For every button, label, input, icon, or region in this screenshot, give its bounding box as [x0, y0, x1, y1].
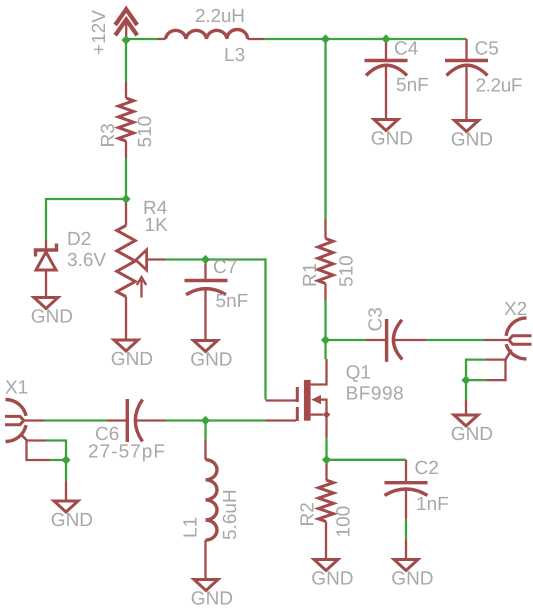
wire +12V rail right segment	[264, 38, 467, 40]
wire node to gate1	[206, 419, 266, 421]
wire from +12V node down to R3	[125, 40, 127, 82]
svg-text:GND: GND	[451, 130, 493, 151]
ground GND under C4	[371, 120, 413, 150]
potentiometer R4	[117, 199, 167, 339]
ground GND under C7	[190, 341, 232, 371]
inductor L3	[157, 29, 264, 39]
diode D2 zener	[36, 240, 57, 297]
node junction wiper / C7	[201, 255, 210, 264]
connector X2	[484, 318, 532, 380]
svg-text:510: 510	[135, 116, 156, 148]
svg-text:C7: C7	[213, 257, 237, 278]
connector X1	[5, 399, 50, 460]
svg-text:5nF: 5nF	[396, 75, 429, 96]
svg-text:L1: L1	[181, 517, 202, 538]
wire X2 shell loop	[466, 360, 487, 381]
svg-text:R2: R2	[298, 502, 319, 526]
node junction rail / C4	[381, 34, 390, 43]
resistor R3	[118, 82, 133, 158]
capacitor C6	[107, 399, 166, 442]
svg-text:C5: C5	[475, 39, 499, 60]
ground GND under X2	[451, 400, 493, 445]
svg-text:GND: GND	[371, 129, 413, 150]
wire R1 to drain node	[324, 300, 326, 340]
svg-text:GND: GND	[451, 424, 493, 445]
svg-text:R1: R1	[300, 263, 321, 287]
svg-text:C4: C4	[394, 39, 419, 60]
node junction R3 / R4 / D2	[121, 194, 130, 203]
inductor L1	[206, 440, 218, 580]
svg-text:X2: X2	[504, 299, 527, 320]
svg-text:1K: 1K	[145, 215, 169, 236]
svg-text:R3: R3	[98, 123, 119, 147]
svg-text:BF998: BF998	[346, 384, 404, 405]
node junction rail / R1	[321, 34, 330, 43]
ground GND under R2	[311, 560, 353, 590]
node junction X1 ground	[61, 455, 70, 464]
node junction X2 ground	[461, 376, 470, 385]
transistor Q1 BF998	[266, 359, 331, 438]
node junction R1 / C3 / drain	[321, 335, 330, 344]
supply +12V symbol	[115, 9, 137, 40]
ground GND under X1	[51, 481, 93, 531]
svg-text:C3: C3	[366, 307, 387, 331]
wire C3 net from drain node	[326, 339, 366, 341]
wire X1 shell loop	[46, 441, 66, 461]
wire R3 to node	[125, 158, 127, 199]
svg-text:GND: GND	[31, 307, 73, 328]
svg-text:GND: GND	[191, 589, 233, 610]
ground GND under L1	[191, 580, 233, 610]
svg-text:5.6uH: 5.6uH	[220, 489, 241, 540]
node junction source / R2 / C2	[322, 455, 331, 464]
svg-text:X1: X1	[5, 378, 28, 399]
wire C3 to X2	[426, 339, 484, 341]
ground GND under D2	[31, 298, 73, 328]
wire source to bottom node	[325, 438, 327, 460]
wire drain node down	[324, 340, 326, 359]
svg-text:GND: GND	[311, 569, 353, 590]
wire node to L1	[204, 421, 206, 440]
wire X2 node to ground	[465, 380, 467, 400]
wire rail to R1	[324, 39, 326, 219]
svg-text:GND: GND	[391, 569, 433, 590]
wire C6 to node	[166, 419, 206, 421]
svg-text:L3: L3	[224, 45, 245, 66]
svg-text:GND: GND	[190, 350, 232, 371]
capacitor C3	[365, 319, 426, 362]
resistor R2	[318, 460, 333, 558]
svg-text:GND: GND	[51, 510, 93, 531]
svg-text:1nF: 1nF	[416, 494, 449, 515]
svg-text:2.2uF: 2.2uF	[476, 76, 523, 97]
node junction at +12V	[121, 35, 130, 44]
capacitor C2	[385, 460, 428, 520]
svg-text:GND: GND	[111, 349, 153, 370]
ground GND under C2	[391, 539, 433, 590]
capacitor C7	[185, 260, 228, 340]
node junction C6 / L1 / gate1	[201, 416, 210, 425]
svg-text:Q1: Q1	[346, 362, 371, 383]
svg-text:510: 510	[337, 255, 358, 287]
ground GND under C5	[451, 121, 493, 151]
wire node to D2	[46, 199, 126, 240]
svg-text:3.6V: 3.6V	[67, 250, 106, 271]
wire R4 wiper net to C7 and gate2 corner	[166, 260, 265, 400]
svg-text:C2: C2	[415, 458, 439, 479]
wire X1 node to ground	[65, 460, 67, 481]
ground GND under R4	[111, 340, 153, 370]
svg-text:27-57pF: 27-57pF	[88, 442, 165, 463]
wire C2 to ground	[405, 520, 407, 539]
svg-text:100: 100	[334, 506, 355, 538]
svg-text:2.2uH: 2.2uH	[195, 6, 245, 27]
svg-text:D2: D2	[67, 229, 91, 250]
resistor R1	[318, 219, 333, 300]
svg-text:5nF: 5nF	[216, 291, 249, 312]
capacitor C5	[445, 39, 488, 119]
svg-text:+12V: +12V	[89, 10, 110, 55]
capacitor C4	[365, 39, 408, 118]
wire X1 to C6	[44, 419, 107, 421]
wire +12V rail left segment	[126, 38, 157, 40]
wire bottom node to C2	[327, 459, 407, 461]
